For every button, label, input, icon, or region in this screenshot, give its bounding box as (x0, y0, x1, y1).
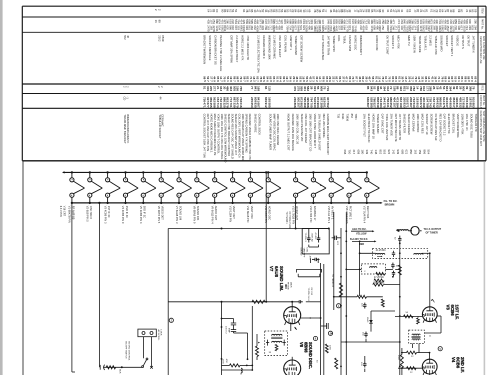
svg-text:MMF VIDEO OSC COIL BRAC: MMF VIDEO OSC COIL BRAC (272, 114, 276, 151)
wire caps join (308, 245, 310, 247)
svg-text:VIDEO SYNC HORIZ MFD T: VIDEO SYNC HORIZ MFD T (313, 114, 317, 149)
svg-text:47K: 47K (225, 359, 227, 363)
svg-text:CERAMIC VIDEO CARBON 470K 47K: CERAMIC VIDEO CARBON 470K 47K (248, 114, 252, 161)
wire V7 plate (291, 302, 293, 307)
svg-text:30: 30 (381, 9, 385, 13)
label V7 6AU8 sound lim (269, 266, 284, 291)
svg-text:SOCKET .047 10: SOCKET .047 10 (425, 114, 429, 135)
wire interlock leads (144, 337, 153, 369)
label to pin V10 (307, 288, 312, 302)
svg-text:SHIELD 470K BRACKET CONTRO: SHIELD 470K BRACKET CONTRO (227, 114, 231, 157)
junction dots IF strip (333, 230, 431, 367)
svg-text:SOUND OSC TUBU: SOUND OSC TUBU (469, 114, 473, 138)
svg-text:SHIELD PEAKING VID: SHIELD PEAKING VID (300, 114, 304, 142)
svg-text:217: 217 (352, 150, 356, 155)
svg-text:ON VOL CONTROL: ON VOL CONTROL (128, 341, 130, 361)
svg-text:COIL DEFL VERT WIREWOUND CA: COIL DEFL VERT WIREWOUND CA (238, 114, 242, 158)
transformer T1 1st IF (373, 248, 428, 258)
svg-text:V16 CRT: V16 CRT (63, 206, 66, 217)
svg-text:CAP SOCKET 2.2: CAP SOCKET 2.2 (443, 114, 447, 136)
svg-text:100K 100K CRT BRACKET CO: 100K 100K CRT BRACKET CO (309, 114, 313, 152)
resistor R9 zigzag on rail (339, 283, 342, 297)
trap network V8 grid (221, 358, 253, 375)
resistor R11 (400, 355, 403, 369)
svg-text:FILTER CAP RES SHI: FILTER CAP RES SHI (434, 114, 438, 141)
node 6 (328, 331, 332, 335)
discriminator transformer T3 (265, 331, 288, 356)
svg-text:V8 6BN6 PIN 9: V8 6BN6 PIN 9 (193, 206, 197, 224)
svg-text:2.2 MEG ELECTROLYTIC 10%: 2.2 MEG ELECTROLYTIC 10% (257, 35, 261, 73)
label heater V1 (68, 206, 76, 223)
svg-text:81: 81 (424, 9, 428, 13)
tube heater V10 (231, 171, 246, 204)
node 4 (337, 304, 341, 308)
label on-off switch (125, 341, 130, 361)
svg-text:CONTROL SOCKET 100K .047 TUN: CONTROL SOCKET 100K .047 TUN (203, 114, 207, 158)
svg-text:V13 17BQ6 PIN: V13 17BQ6 PIN (291, 206, 295, 225)
svg-text:BRACKET WIREWOUN: BRACKET WIREWOUN (203, 35, 207, 64)
wire V7 pin right (301, 317, 322, 319)
capacitor C7 (364, 303, 366, 305)
resistor R8 (381, 299, 384, 307)
tube V3 1st IF (422, 307, 437, 323)
arrow R21 (258, 342, 260, 344)
capacitor C32 (312, 258, 315, 260)
svg-text:VERT OSC: VERT OSC (250, 206, 254, 219)
svg-text:163: 163 (414, 150, 418, 155)
capacitor C8 (365, 332, 367, 334)
capacitor C9 (364, 362, 366, 364)
label heater V11 (246, 206, 254, 223)
resistor R12 (407, 351, 417, 354)
svg-text:TUBULAR 470K: TUBULAR 470K (434, 35, 438, 55)
svg-text:CRT .047 OSC CAP 470K SYN: CRT .047 OSC CAP 470K SYN (206, 114, 210, 152)
svg-text:1N60: 1N60 (366, 317, 368, 323)
svg-text:0539: 0539 (161, 35, 165, 42)
svg-text:V4 4CB6 PIN 9: V4 4CB6 PIN 9 (121, 206, 125, 224)
label heater V8 (193, 206, 201, 224)
svg-text:740: 740 (370, 150, 374, 155)
svg-text:668: 668 (343, 150, 347, 155)
tube heater V3 (106, 171, 121, 204)
wire V4 pin down (429, 374, 431, 375)
svg-text:TUNER SOUND: TUNER SOUND (376, 114, 380, 134)
svg-text:CAP SYNC CRT: CAP SYNC CRT (380, 114, 384, 134)
tube V4 2nd IF (422, 359, 437, 375)
connector IF input (396, 227, 421, 235)
svg-text:687: 687 (257, 103, 261, 108)
wire left margin vertical (22, 161, 24, 375)
svg-text:735: 735 (337, 114, 341, 119)
svg-text:CRT SCREW SCREW: CRT SCREW SCREW (300, 35, 304, 62)
diode M1 1N60 (366, 317, 373, 325)
svg-text:V4: V4 (451, 357, 456, 363)
switch SW1 (142, 358, 148, 368)
label heater V6 (157, 206, 165, 224)
svg-text:ON-OFF SWITCH: ON-OFF SWITCH (125, 341, 127, 359)
arrow heater bus left (62, 171, 65, 173)
tube heater V2 (88, 171, 103, 204)
svg-text:00: 00 (215, 9, 219, 13)
svg-text:SHIELD CERAMI: SHIELD CERAMI (407, 114, 411, 135)
svg-text:WIREWOUND 100K: WIREWOUND 100K (267, 35, 271, 60)
svg-text:6.3 V PIN: 6.3 V PIN (59, 206, 62, 217)
svg-text:31.25 MC: 31.25 MC (373, 282, 383, 284)
wire IF cross connects (334, 269, 400, 372)
svg-text:TUBULAR 2.: TUBULAR 2. (423, 35, 427, 51)
parts list row 6 description columns (123, 114, 478, 163)
svg-text:YOKE 100K OUTPUT CONTROL: YOKE 100K OUTPUT CONTROL (217, 114, 221, 155)
svg-text:100K CONTRO: 100K CONTRO (416, 114, 420, 133)
svg-text:V9 6AQ5 PIN 4: V9 6AQ5 PIN 4 (210, 206, 214, 224)
svg-text:KNOB OUTPUT 2.2 MEG CRT: KNOB OUTPUT 2.2 MEG CRT (287, 114, 291, 151)
label heater V7 (175, 206, 183, 224)
wire B+ rail drop (359, 241, 361, 296)
tube heater V17 (365, 171, 380, 204)
wire grid V3 (395, 315, 422, 317)
svg-text:SOUND DISC.: SOUND DISC. (308, 342, 313, 369)
svg-text:65: 65 (473, 76, 477, 79)
svg-text:DESCRIPTION TEST DATA NOT: DESCRIPTION TEST DATA NOT (479, 111, 482, 147)
tube heater V5 (141, 171, 156, 204)
tube heater V1 (70, 171, 85, 204)
svg-text:659: 659 (356, 150, 360, 155)
svg-text:10% 470K .04: 10% 470K .04 (465, 114, 469, 131)
svg-text:MMF: MMF (228, 328, 230, 334)
wire disc leads (221, 306, 257, 371)
svg-text:SHIELD 20% SOUND VIDEO .047: SHIELD 20% SOUND VIDEO .047 (234, 114, 238, 156)
wire grid V4 (398, 367, 422, 369)
svg-text:TO PIN 3: TO PIN 3 (304, 233, 306, 243)
svg-text:SOCKET VERT 1: SOCKET VERT 1 (450, 35, 454, 57)
svg-text:100K SCREW CAP VIDEO HORIZ MIC: 100K SCREW CAP VIDEO HORIZ MIC (241, 114, 245, 161)
svg-text:OUTPUT CONT: OUTPUT CONT (386, 35, 390, 55)
svg-text:562: 562 (326, 103, 330, 108)
label 6.3V winding (59, 206, 65, 217)
svg-text:V8: V8 (299, 342, 304, 348)
svg-text:685: 685 (400, 150, 404, 155)
svg-text:6BN6: 6BN6 (303, 342, 308, 353)
svg-text:V3: V3 (446, 305, 451, 311)
svg-text:PHONE: PHONE (287, 282, 289, 290)
svg-text:CERAMIC: CERAMIC (161, 114, 165, 126)
svg-text:16: 16 (154, 20, 158, 24)
wire heater bus top (63, 171, 367, 173)
resistor R20 (252, 300, 265, 303)
svg-text:1/2W DEFL 470K: 1/2W DEFL 470K (461, 114, 465, 135)
svg-text:339: 339 (365, 150, 369, 155)
svg-text:HORIZ KNOB MICA CARBON 2.: HORIZ KNOB MICA CARBON 2. (210, 114, 214, 154)
svg-text:VERT OUT: VERT OUT (232, 206, 236, 219)
svg-text:1ST IF 4C: 1ST IF 4C (107, 206, 111, 218)
svg-text:939: 939 (396, 150, 400, 155)
svg-text:926: 926 (387, 150, 391, 155)
label V4 4CB6 2ND IF (451, 357, 465, 373)
svg-text:900: 900 (468, 19, 472, 24)
label heater V2 (86, 206, 94, 222)
svg-text:ELECTROLYTIC: ELECTROLYTIC (447, 114, 451, 134)
svg-text:147: 147 (321, 19, 325, 24)
tube heater V8 (195, 171, 210, 204)
svg-text:7854: 7854 (354, 114, 358, 120)
svg-text:100 X 2: 100 X 2 (225, 326, 227, 334)
svg-text:SOUND LIM: SOUND LIM (178, 206, 182, 220)
wire V8 plate lead (291, 357, 293, 360)
svg-text:SOCKET KNOB ELE: SOCKET KNOB ELE (208, 35, 212, 60)
svg-text:1/2W CRT 1: 1/2W CRT 1 (289, 35, 293, 50)
svg-text:618: 618 (364, 25, 368, 30)
resistor R10b cathode (417, 318, 420, 324)
svg-text:V15 1G3 PIN 3: V15 1G3 PIN 3 (327, 206, 331, 224)
resistor R5b (374, 279, 384, 282)
svg-text:TRANS SCRE: TRANS SCRE (418, 35, 422, 53)
svg-text:COIL: COIL (305, 247, 307, 253)
wire heater drop C (265, 172, 267, 301)
svg-text:69: 69 (307, 9, 311, 13)
svg-text:47.25 MC: 47.25 MC (374, 277, 384, 279)
capacitor C31 (318, 229, 320, 236)
scan edge strip left (0, 0, 3, 375)
svg-text:HORIZ 2.2 MEG 47K: HORIZ 2.2 MEG 47K (240, 35, 244, 60)
resistor R6 (357, 295, 367, 298)
svg-text:LOCK: LOCK (160, 330, 162, 336)
svg-text:BLK: BLK (119, 369, 121, 374)
capacitor C21 on plate row (297, 301, 299, 303)
svg-text:43: 43 (348, 9, 352, 13)
svg-text:78: 78 (472, 86, 476, 90)
wire V3 plate up (429, 253, 431, 306)
svg-text:TO PIN 3 & 4: TO PIN 3 & 4 (307, 288, 309, 302)
label heater V12 (264, 206, 272, 223)
parts list row 2 entries (154, 19, 477, 32)
svg-text:MICA COIL RES: MICA COIL RES (420, 114, 424, 134)
svg-text:470K 100K ELECTR: 470K 100K ELECTR (246, 35, 250, 60)
svg-text:98: 98 (452, 9, 456, 13)
svg-text:TUNER SOUND: TUNER SOUND (294, 35, 298, 55)
label to pin 3 takeoff (299, 233, 316, 258)
svg-text:1500: 1500 (397, 355, 399, 361)
label heater V3 (103, 206, 111, 224)
svg-text:585: 585 (267, 103, 271, 108)
node 3 on box edge (169, 318, 173, 322)
svg-text:YOKE COIL VERT MF: YOKE COIL VERT MF (385, 114, 389, 141)
label heater V9 (210, 206, 218, 224)
svg-text:RECT 5U4: RECT 5U4 (366, 206, 370, 219)
tube heater V4 (123, 171, 138, 204)
svg-text:V17 5U4 PIN 4: V17 5U4 PIN 4 (363, 206, 367, 224)
svg-text:SHIELD HORIZ: SHIELD HORIZ (254, 114, 258, 133)
svg-text:82: 82 (460, 9, 464, 13)
svg-text:TUNER SPRI: TUNER SPRI (332, 35, 336, 52)
tube heater V16 (347, 171, 362, 204)
capacitor C6 (393, 271, 395, 273)
capacitor C2 rail (332, 236, 341, 246)
svg-text:CARBON MICA VERT KNOB CRT: CARBON MICA VERT KNOB CRT (326, 114, 330, 156)
svg-text:100K 100K COIL OSC 20: 100K 100K COIL OSC 20 (295, 114, 299, 145)
tube heater V7 (177, 171, 192, 204)
wire cathode link (417, 316, 419, 318)
svg-text:VIDEO DET: VIDEO DET (161, 206, 165, 220)
svg-text:10% TUBULAR SHIELD VERT: 10% TUBULAR SHIELD VERT (317, 114, 321, 151)
capacitor C5 (392, 263, 394, 265)
svg-text:BRACKET COIL: BRACKET COIL (452, 114, 456, 134)
tube heater V14 (311, 171, 326, 204)
svg-text:YELLOW: YELLOW (356, 233, 367, 236)
svg-text:902: 902 (378, 150, 382, 155)
arrow ground V7 (295, 327, 297, 330)
svg-text:TO TERM 13: TO TERM 13 (331, 274, 333, 288)
svg-text:2.2 MEG CERAMIC: 2.2 MEG CERAMIC (273, 35, 277, 59)
svg-text:SOUND LIM.: SOUND LIM. (279, 266, 284, 291)
wire cap to disc (234, 332, 248, 334)
arrow V3 agc (431, 299, 435, 302)
wire AGC lead (351, 230, 373, 232)
svg-text:HORIZ CON: HORIZ CON (375, 35, 379, 50)
tube heater V13 (294, 171, 309, 204)
svg-text:.047 TRANS 1/2W TR: .047 TRANS 1/2W TR (398, 114, 402, 140)
svg-text:0331: 0331 (341, 114, 345, 120)
svg-text:850: 850 (409, 150, 413, 155)
svg-text:2.2 MEG: 2.2 MEG (429, 35, 433, 46)
svg-text:VERT SCREW BRA: VERT SCREW BRA (456, 114, 460, 138)
svg-text:169: 169 (257, 86, 261, 91)
wire rail R1 (333, 212, 335, 310)
wire rail connector drop (399, 243, 401, 375)
svg-text:503: 503 (383, 150, 387, 155)
resistor R40 (106, 366, 115, 369)
svg-text:FILTER SPRI: FILTER SPRI (348, 35, 352, 51)
wire T1 left lead (360, 252, 376, 254)
svg-text:MICA CERAMI: MICA CERAMI (412, 114, 416, 132)
svg-text:2ND IF 4C: 2ND IF 4C (125, 206, 129, 218)
svg-text:SOUND RES CAP OSC .047 SHIELD: SOUND RES CAP OSC .047 SHIELD (231, 114, 235, 159)
wire T1 right lead (422, 252, 430, 254)
wire heater drop A (71, 203, 73, 372)
tube V7 sound lim (284, 307, 301, 325)
svg-text:SOUND: SOUND (299, 247, 301, 255)
svg-text:10% SOCKET FILT: 10% SOCKET FILT (363, 114, 367, 138)
svg-text:854: 854 (350, 114, 354, 119)
svg-text:504: 504 (427, 150, 431, 155)
parts list row 4 entries (122, 86, 475, 91)
svg-text:PART No.: PART No. (480, 19, 483, 30)
wire sound plate row (168, 301, 297, 303)
svg-text:6CB6: 6CB6 (450, 305, 455, 317)
svg-text:3RD IF 3C: 3RD IF 3C (143, 206, 147, 218)
svg-text:OSC MIX 6: OSC MIX 6 (89, 206, 93, 220)
svg-text:CONTROL SOCK: CONTROL SOCK (257, 114, 261, 136)
node 5 (438, 347, 442, 351)
svg-text:TUBUL: TUBUL (343, 35, 347, 44)
svg-text:V1 6BK7B PIN: V1 6BK7B PIN (68, 206, 72, 223)
wire IF section box left (167, 229, 169, 375)
svg-text:016: 016 (239, 103, 243, 108)
svg-text:316: 316 (280, 25, 284, 30)
svg-text:PICTURE 2: PICTURE 2 (348, 206, 352, 220)
resistor R10 56 (404, 315, 414, 318)
svg-text:OSC 1/2W ELECT: OSC 1/2W ELECT (278, 35, 282, 58)
wire B+ lead (352, 240, 375, 242)
svg-text:100K YOKE W: 100K YOKE W (413, 35, 417, 53)
svg-text:OF TUNER: OF TUNER (426, 231, 438, 234)
svg-text:OSC COIL .047 CERAM: OSC COIL .047 CERAM (304, 114, 308, 144)
label interlock (157, 330, 162, 341)
label heater V17 (363, 206, 371, 224)
tube heater V12 (266, 171, 281, 204)
label heater V5 (139, 206, 147, 224)
svg-text:V14 17D4 PIN: V14 17D4 PIN (309, 206, 313, 223)
svg-text:SOUND TUNER MMF TUNER: SOUND TUNER MMF TUNER (269, 114, 273, 151)
resistor R7 (373, 283, 384, 286)
junction bottom (121, 366, 123, 368)
label heater V4 (121, 206, 129, 224)
label V3 4CB6 1ST IF (446, 305, 460, 320)
parts list row 3 bottom dense line (203, 76, 478, 82)
svg-text:719: 719 (326, 86, 330, 91)
svg-text:996: 996 (422, 150, 426, 155)
svg-text:51: 51 (234, 9, 238, 13)
svg-text:6AU8: 6AU8 (274, 266, 279, 278)
svg-text:159: 159 (418, 150, 422, 155)
svg-text:PART No.: PART No. (482, 95, 485, 106)
wire R12 links (402, 352, 407, 354)
svg-text:BROWN: BROWN (385, 203, 395, 206)
svg-text:OF V10: OF V10 (310, 288, 312, 296)
arrow AGC (372, 230, 374, 232)
label V8 6BN6 sound disc (299, 342, 313, 369)
wire rail R3 (340, 228, 342, 375)
transformer T2 2nd IF (409, 330, 432, 343)
table header column labels (479, 8, 485, 147)
svg-text:HORIZ SOC: HORIZ SOC (353, 35, 357, 50)
resistor R21 (256, 346, 259, 357)
electrolytic C22 (321, 323, 333, 334)
tube heater V11 (248, 171, 263, 204)
svg-text:V10 12B4 PIN: V10 12B4 PIN (228, 206, 232, 223)
svg-text:V16 21FP4 PIN: V16 21FP4 PIN (345, 206, 349, 224)
tube heater V9 (213, 171, 228, 204)
svg-text:115: 115 (267, 86, 271, 91)
resistor R13 (407, 367, 417, 370)
svg-text:09: 09 (473, 9, 477, 13)
svg-text:1ST I.F.: 1ST I.F. (454, 305, 459, 320)
tube V8 sound disc (284, 360, 301, 375)
svg-text:AUDIO OUT: AUDIO OUT (214, 206, 218, 221)
svg-text:.047 TUNER K: .047 TUNER K (472, 35, 476, 53)
svg-text:SHIELD CONTROL 1/2W WIREWOUND: SHIELD CONTROL 1/2W WIREWOUND (224, 114, 228, 163)
svg-text:MICA SHIELD CERAMIC MICA PE: MICA SHIELD CERAMIC MICA PE (213, 114, 217, 156)
wire bottom run (103, 366, 142, 368)
tube heater V15 (329, 171, 344, 204)
label heater V15 (327, 206, 335, 224)
wire takeoff jumper (296, 269, 321, 276)
resistor R5 (376, 272, 385, 275)
svg-text:2.2 MEG ELECTROLY: 2.2 MEG ELECTROLY (235, 35, 239, 62)
svg-text:WIREWOUND HORIZ K: WIREWOUND HORIZ K (126, 114, 130, 143)
svg-text:ELECTROLYTIC PEAKI: ELECTROLYTIC PEAKI (367, 114, 371, 143)
svg-text:SOCKET C: SOCKET C (391, 35, 395, 49)
svg-text:27: 27 (324, 9, 328, 13)
svg-text:RES CAP BRACKET D: RES CAP BRACKET D (438, 114, 442, 142)
svg-text:41.25 MC: 41.25 MC (376, 250, 386, 252)
parts table frame (22, 6, 486, 161)
svg-text:SOUND MFD: SOUND MFD (439, 35, 443, 51)
svg-text:CARBON BRACKET OS: CARBON BRACKET OS (214, 35, 218, 65)
wire heater drop B (98, 203, 100, 367)
svg-text:765: 765 (239, 86, 243, 91)
svg-text:142: 142 (392, 150, 396, 155)
svg-text:7749: 7749 (354, 25, 358, 32)
